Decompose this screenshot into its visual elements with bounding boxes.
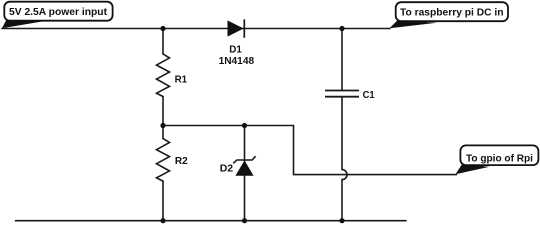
wire mid rail from R divider node to D2 and corner [163,126,457,175]
wire bottom ground rail [16,220,407,222]
wire D2 branch [244,126,246,221]
junction node: divider mid / R2 [160,123,165,128]
junction node: top rail / R1 [160,26,165,31]
junction node: top rail / C1 [339,26,344,31]
svg-text:To gpio of Rpi: To gpio of Rpi [466,152,533,164]
wire C1 top lead [341,29,343,90]
zener diode D2 [233,156,255,175]
svg-text:C1: C1 [363,89,375,101]
capacitor C1 [325,91,359,97]
svg-text:D2: D2 [220,162,234,174]
wire mid node to R2 [162,126,164,139]
wire R branch top: node to R1 [162,29,164,55]
junction node: divider mid / D2 [242,123,247,128]
note callout: To gpio of Rpi [456,145,539,174]
wire R1 bottom to mid node [162,97,164,126]
svg-text:1N4148: 1N4148 [219,55,255,67]
junction node: ground rail / R2 [160,218,165,223]
junction node: ground rail / D2 [242,218,247,223]
svg-text:R2: R2 [175,155,188,167]
note callout: To raspberry pi DC in [390,2,509,28]
resistor R1 [157,54,170,97]
svg-text:D1: D1 [229,43,242,55]
junction node: ground rail / C1 [339,218,344,223]
wire top rail from power input to D1 anode and on to DC-in note [2,28,390,30]
wire C1 bottom lead with hop over gpio wire [342,98,347,221]
wire R2 bottom to ground rail [162,181,164,221]
resistor R2 [157,139,170,182]
svg-text:5V 2.5A power input: 5V 2.5A power input [9,6,107,18]
svg-text:To raspberry pi DC in: To raspberry pi DC in [400,6,504,18]
svg-text:R1: R1 [175,73,188,85]
diode D1 1N4148 [228,19,244,38]
note callout: 5V 2.5A power input [2,2,113,29]
